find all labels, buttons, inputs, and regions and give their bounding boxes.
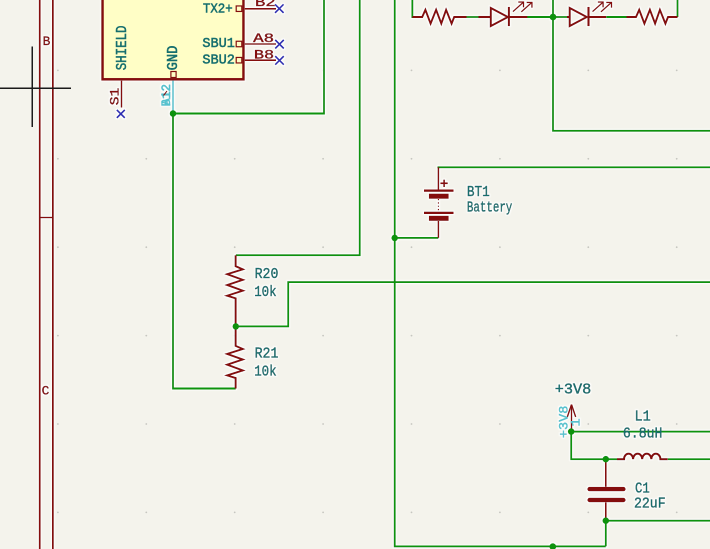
grid dots: [57, 70, 678, 514]
sheet border row divider: [40, 217, 53, 219]
LED D2 arrows: [593, 2, 612, 12]
wire +3V8 rail: [571, 432, 710, 460]
node junction J4 LED center: [550, 14, 557, 21]
wire battery net vertical x=394.7 top to bottom: [395, 0, 606, 546]
svg-text:S1: S1: [108, 88, 123, 106]
svg-text:SHIELD: SHIELD: [115, 26, 131, 71]
resistor R20: [227, 255, 243, 326]
svg-text:6.8uH: 6.8uH: [623, 426, 663, 442]
node junction J8 bottom wire: [549, 543, 556, 549]
svg-text:SBU2: SBU2: [202, 53, 235, 68]
wire net GND: vertical from top at x=324: [173, 0, 324, 389]
LED D2: [567, 7, 606, 26]
sheet border left line outer: [39, 0, 41, 549]
svg-text:Battery: Battery: [467, 201, 513, 217]
power symbol +3V8: [567, 405, 575, 432]
svg-text:10k: 10k: [254, 365, 276, 381]
svg-text:L1: L1: [635, 410, 651, 426]
resistor R21: [227, 326, 243, 388]
svg-text:R21: R21: [255, 347, 279, 363]
svg-text:TX2+: TX2+: [203, 3, 233, 18]
svg-text:B: B: [43, 34, 51, 49]
no-connect X on TX2+: [275, 4, 284, 13]
svg-text:A8: A8: [253, 31, 274, 46]
svg-text:A12: A12: [159, 84, 174, 105]
pin SBU2 (B8): [236, 47, 276, 63]
svg-text:+3V8: +3V8: [555, 382, 592, 398]
svg-text:22uF: 22uF: [634, 496, 666, 512]
wire resistor2 right corner up: [677, 0, 679, 17]
svg-text:B2: B2: [255, 0, 276, 10]
plus sign: [440, 182, 447, 184]
wire R20/R21 divider output: [236, 282, 710, 326]
node junction J3 battery branch: [391, 235, 398, 242]
wire LED2 to resistor2: [606, 16, 626, 18]
wire L1 to right edge: [668, 458, 710, 460]
no-connect X on S1: [117, 110, 125, 118]
capacitor C1: [590, 461, 624, 521]
svg-text:C: C: [42, 383, 50, 398]
wire battery top rail y=167.3: [438, 166, 710, 168]
resistor R23 (top-right): [627, 10, 678, 24]
node junction J6 L1/C1: [603, 456, 610, 463]
pin GND (stacked): [159, 72, 176, 114]
battery BT1: [424, 167, 454, 238]
svg-text:GND: GND: [166, 46, 182, 71]
resistor R22 (top-left of LED pair): [412, 10, 466, 24]
wire LED center vertical from top through junction down: [553, 0, 710, 131]
svg-text:SBU1: SBU1: [202, 37, 235, 52]
connector U1 body SHIELD box: [103, 0, 244, 79]
LED D1 arrows: [513, 2, 532, 12]
no-connect X on SBU2: [275, 56, 284, 65]
node junction J1 at GND pin: [170, 110, 177, 117]
pin S1: [108, 81, 123, 108]
svg-text:R20: R20: [255, 267, 279, 283]
wire LED branch left corner: [412, 0, 421, 17]
no-connect X on SBU1: [275, 40, 284, 49]
node junction J2 divider: [233, 323, 240, 330]
sheet border left line inner: [52, 0, 54, 549]
wire junction to L1: [606, 458, 617, 460]
inductor L1: [617, 454, 668, 460]
cursor crosshair: [0, 47, 71, 128]
wire segment LED1 to junction: [526, 16, 553, 18]
node junction J5 power: [568, 428, 575, 435]
wire battery bottom branch: [395, 237, 439, 239]
svg-text:B8: B8: [254, 47, 274, 62]
LED D1: [479, 7, 528, 26]
wire C1 bottom rail: [606, 521, 710, 547]
svg-text:1: 1: [569, 418, 584, 426]
svg-text:C1: C1: [635, 481, 650, 497]
pin TX2+ (B2): [236, 0, 276, 11]
svg-text:10k: 10k: [254, 285, 276, 301]
wire segment resistor1 to LED1: [466, 16, 479, 18]
wire to R20 top from top edge: [236, 0, 360, 255]
svg-text:BT1: BT1: [467, 185, 490, 201]
pin SBU1 (A8): [236, 31, 276, 47]
node junction J7 C1 bottom: [603, 517, 610, 524]
wire junction to LED2: [553, 16, 568, 18]
